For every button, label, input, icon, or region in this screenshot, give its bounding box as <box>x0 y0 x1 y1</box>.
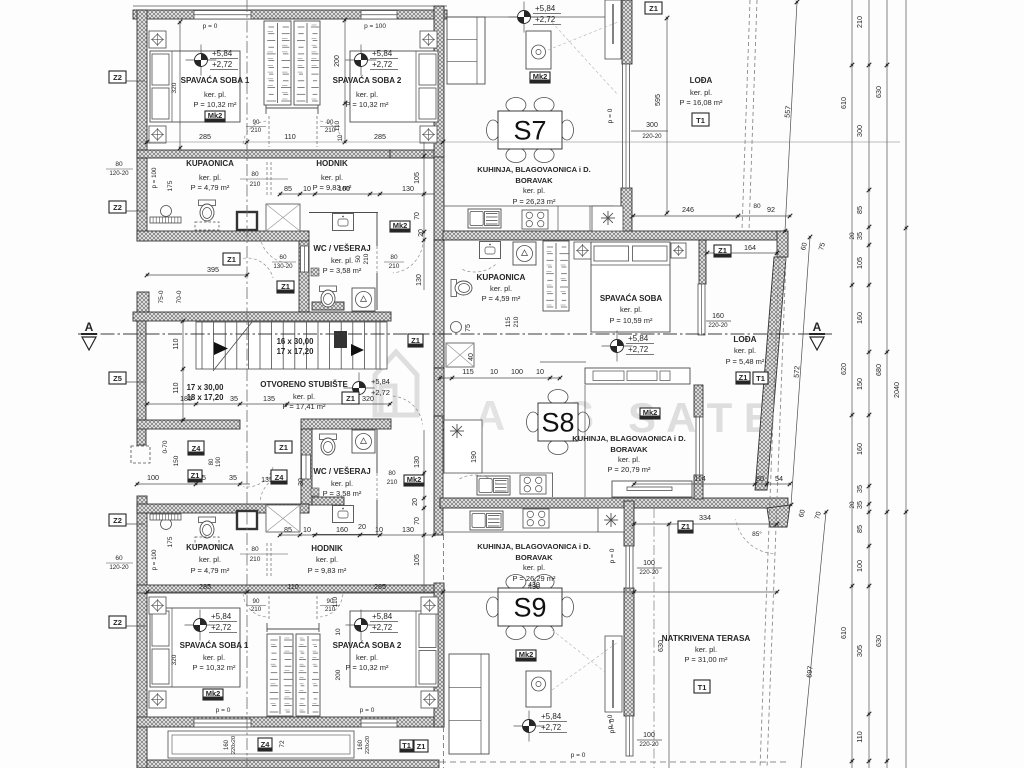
svg-text:110: 110 <box>334 120 341 131</box>
svg-text:+2,72: +2,72 <box>628 345 649 354</box>
svg-text:85: 85 <box>855 206 864 214</box>
svg-text:ker. pl.: ker. pl. <box>523 186 545 195</box>
svg-text:620: 620 <box>839 363 848 375</box>
svg-text:20: 20 <box>849 232 856 240</box>
svg-text:KUPAONICA: KUPAONICA <box>186 159 234 168</box>
svg-text:35: 35 <box>855 501 864 509</box>
svg-text:Z4: Z4 <box>192 444 202 453</box>
svg-text:Z1: Z1 <box>281 282 290 291</box>
svg-text:ker. pl.: ker. pl. <box>199 173 221 182</box>
svg-text:10: 10 <box>536 367 544 376</box>
svg-text:210: 210 <box>389 263 400 270</box>
svg-text:430: 430 <box>528 582 540 589</box>
svg-text:+2,72: +2,72 <box>371 388 390 397</box>
svg-text:572: 572 <box>792 366 802 379</box>
svg-text:p = 100: p = 100 <box>364 23 386 30</box>
svg-text:80: 80 <box>756 474 764 483</box>
svg-text:T1: T1 <box>402 741 411 750</box>
svg-text:164: 164 <box>744 243 756 252</box>
svg-text:70: 70 <box>414 517 421 525</box>
svg-text:+5,84: +5,84 <box>371 377 390 386</box>
svg-text:p = 0: p = 0 <box>609 718 616 733</box>
svg-text:130-20: 130-20 <box>273 263 293 270</box>
svg-text:Z1: Z1 <box>346 394 355 403</box>
svg-text:HODNIK: HODNIK <box>316 159 348 168</box>
svg-text:70: 70 <box>414 212 421 220</box>
svg-text:S8: S8 <box>541 408 574 438</box>
svg-text:Z1: Z1 <box>227 255 236 264</box>
svg-text:246: 246 <box>682 205 694 214</box>
svg-text:P = 10,32 m²: P = 10,32 m² <box>345 100 389 109</box>
svg-text:SPAVAĆA SOBA 1: SPAVAĆA SOBA 1 <box>181 76 250 85</box>
svg-text:+5,84: +5,84 <box>372 612 393 621</box>
svg-text:285: 285 <box>199 582 211 591</box>
svg-text:+5,84: +5,84 <box>541 712 562 721</box>
svg-text:p = 0: p = 0 <box>607 108 614 123</box>
svg-text:630: 630 <box>874 635 883 647</box>
svg-text:WC / VEŠERAJ: WC / VEŠERAJ <box>313 244 370 253</box>
svg-text:p = 0: p = 0 <box>360 707 375 714</box>
svg-text:+5,84: +5,84 <box>212 49 233 58</box>
svg-text:630: 630 <box>874 86 883 98</box>
svg-text:220x20: 220x20 <box>231 736 237 754</box>
svg-text:Z1: Z1 <box>681 522 690 531</box>
svg-text:10: 10 <box>338 134 344 141</box>
svg-text:115: 115 <box>505 316 512 327</box>
svg-text:ker. pl.: ker. pl. <box>618 455 640 464</box>
svg-text:NATKRIVENA TERASA: NATKRIVENA TERASA <box>662 634 751 643</box>
svg-text:220-20: 220-20 <box>642 133 662 140</box>
svg-text:2040: 2040 <box>892 382 901 398</box>
svg-text:P = 10,32 m²: P = 10,32 m² <box>193 100 237 109</box>
svg-text:Z1: Z1 <box>649 4 658 13</box>
svg-text:p = 100: p = 100 <box>151 167 158 188</box>
svg-text:T1: T1 <box>698 683 707 692</box>
svg-text:ker. pl.: ker. pl. <box>490 284 512 293</box>
svg-text:110: 110 <box>287 582 298 591</box>
svg-text:16 x 30,00: 16 x 30,00 <box>277 337 315 346</box>
svg-text:ker. pl.: ker. pl. <box>690 88 712 97</box>
svg-text:+5,84: +5,84 <box>211 612 232 621</box>
svg-text:10: 10 <box>303 525 311 534</box>
svg-text:ker. pl.: ker. pl. <box>734 346 756 355</box>
svg-text:175: 175 <box>167 180 174 191</box>
svg-text:ker. pl.: ker. pl. <box>203 653 225 662</box>
svg-text:LOĐA: LOĐA <box>690 76 713 85</box>
svg-text:100: 100 <box>643 732 655 739</box>
svg-text:105: 105 <box>855 257 864 269</box>
svg-text:395: 395 <box>207 265 219 274</box>
svg-text:LOĐA: LOĐA <box>733 335 756 344</box>
svg-text:SPAVAĆA SOBA 2: SPAVAĆA SOBA 2 <box>333 641 402 650</box>
svg-text:210: 210 <box>387 479 398 486</box>
svg-text:P = 17,41 m²: P = 17,41 m² <box>282 402 326 411</box>
svg-text:80: 80 <box>390 254 398 261</box>
svg-text:+2,72: +2,72 <box>372 623 393 632</box>
svg-text:ker. pl.: ker. pl. <box>331 256 353 265</box>
svg-text:+2,72: +2,72 <box>211 623 232 632</box>
svg-text:130: 130 <box>402 184 414 193</box>
svg-text:ker. pl.: ker. pl. <box>293 392 315 401</box>
svg-text:320: 320 <box>171 82 178 93</box>
svg-text:120-20: 120-20 <box>109 564 129 571</box>
svg-text:+2,72: +2,72 <box>535 15 556 24</box>
svg-text:p = 100: p = 100 <box>151 549 158 570</box>
svg-text:A: A <box>85 320 94 334</box>
svg-text:Z1: Z1 <box>718 246 727 255</box>
svg-text:130: 130 <box>414 456 421 468</box>
svg-text:100: 100 <box>643 560 655 567</box>
svg-text:210: 210 <box>363 253 370 264</box>
svg-text:210: 210 <box>251 127 262 134</box>
svg-text:35: 35 <box>230 394 238 403</box>
svg-text:160: 160 <box>855 443 864 455</box>
svg-text:KUPAONICA: KUPAONICA <box>477 273 526 282</box>
svg-text:85: 85 <box>855 525 864 533</box>
svg-text:680: 680 <box>874 364 883 376</box>
svg-text:40: 40 <box>468 353 475 361</box>
svg-text:+2,72: +2,72 <box>212 60 233 69</box>
svg-text:OTVORENO STUBIŠTE: OTVORENO STUBIŠTE <box>260 380 348 389</box>
svg-text:Z2: Z2 <box>113 203 122 212</box>
svg-text:P = 10,32 m²: P = 10,32 m² <box>345 663 389 672</box>
svg-text:75: 75 <box>465 324 472 332</box>
svg-text:220-20: 220-20 <box>639 569 659 576</box>
svg-text:190: 190 <box>471 451 478 463</box>
svg-text:70-0: 70-0 <box>176 290 183 303</box>
svg-text:Mk2: Mk2 <box>519 650 534 659</box>
svg-text:20: 20 <box>412 498 419 506</box>
svg-text:110: 110 <box>855 731 864 742</box>
svg-text:115: 115 <box>462 367 473 376</box>
svg-text:BORAVAK: BORAVAK <box>610 445 648 454</box>
svg-text:10: 10 <box>303 184 311 193</box>
svg-text:10: 10 <box>490 367 498 376</box>
svg-text:P = 10,59 m²: P = 10,59 m² <box>609 316 653 325</box>
svg-text:105: 105 <box>414 172 421 184</box>
svg-text:ker. pl.: ker. pl. <box>523 563 545 572</box>
svg-text:85: 85 <box>284 525 292 534</box>
svg-text:100: 100 <box>855 560 864 572</box>
svg-text:160: 160 <box>855 312 864 324</box>
svg-text:10: 10 <box>375 525 383 534</box>
svg-text:190: 190 <box>216 456 222 467</box>
svg-text:110: 110 <box>284 132 295 141</box>
svg-text:P = 16,08 m²: P = 16,08 m² <box>679 98 723 107</box>
svg-text:S9: S9 <box>513 593 546 623</box>
svg-text:P = 4,79 m²: P = 4,79 m² <box>191 183 230 192</box>
svg-text:Mk2: Mk2 <box>533 72 548 81</box>
svg-text:220-20: 220-20 <box>639 741 659 748</box>
svg-text:697: 697 <box>804 665 814 678</box>
svg-text:210: 210 <box>251 606 262 613</box>
svg-text:+5,84: +5,84 <box>628 334 649 343</box>
svg-text:p = 0: p = 0 <box>571 752 586 759</box>
svg-text:P = 10,32 m²: P = 10,32 m² <box>192 663 236 672</box>
svg-text:35: 35 <box>855 232 864 240</box>
svg-text:130: 130 <box>416 274 423 286</box>
svg-text:80: 80 <box>388 470 396 477</box>
svg-text:90: 90 <box>327 119 334 126</box>
svg-text:175: 175 <box>167 536 174 547</box>
svg-text:20: 20 <box>358 522 366 531</box>
svg-text:110: 110 <box>173 338 180 349</box>
svg-text:160: 160 <box>358 739 364 750</box>
svg-text:KUHINJA, BLAGOVAONICA i D.: KUHINJA, BLAGOVAONICA i D. <box>477 165 591 174</box>
svg-text:KUHINJA, BLAGOVAONICA i D.: KUHINJA, BLAGOVAONICA i D. <box>572 434 686 443</box>
svg-text:610: 610 <box>839 627 848 639</box>
svg-text:80: 80 <box>209 458 215 465</box>
svg-text:ker. pl.: ker. pl. <box>321 173 343 182</box>
svg-text:T1: T1 <box>696 116 705 125</box>
svg-text:200: 200 <box>335 669 342 680</box>
svg-text:114: 114 <box>694 474 705 483</box>
svg-text:210: 210 <box>513 316 520 327</box>
svg-text:P = 3,58 m²: P = 3,58 m² <box>323 489 362 498</box>
svg-text:+2,72: +2,72 <box>541 723 562 732</box>
svg-text:17 x 30,00: 17 x 30,00 <box>187 383 225 392</box>
svg-text:557: 557 <box>782 105 792 118</box>
svg-text:Z2: Z2 <box>113 516 122 525</box>
svg-text:KUPAONICA: KUPAONICA <box>186 543 234 552</box>
svg-text:285: 285 <box>374 132 386 141</box>
svg-text:100: 100 <box>511 367 523 376</box>
svg-text:60: 60 <box>279 254 287 261</box>
svg-text:Z1: Z1 <box>279 443 288 452</box>
svg-text:Mk2: Mk2 <box>208 111 223 120</box>
svg-text:Z2: Z2 <box>113 73 122 82</box>
svg-text:P = 31,00 m²: P = 31,00 m² <box>684 655 728 664</box>
svg-text:85°: 85° <box>752 530 762 538</box>
svg-text:35: 35 <box>855 485 864 493</box>
svg-text:20: 20 <box>418 229 425 237</box>
svg-text:P = 4,79 m²: P = 4,79 m² <box>191 566 230 575</box>
svg-text:300: 300 <box>855 125 864 137</box>
svg-text:KUHINJA, BLAGOVAONICA i D.: KUHINJA, BLAGOVAONICA i D. <box>477 542 591 551</box>
svg-text:90: 90 <box>253 598 260 605</box>
svg-text:ker. pl.: ker. pl. <box>356 653 378 662</box>
svg-text:130: 130 <box>402 525 414 534</box>
svg-text:50: 50 <box>355 255 362 263</box>
svg-text:150: 150 <box>855 378 864 390</box>
svg-text:35: 35 <box>229 473 237 482</box>
svg-text:334: 334 <box>699 513 711 522</box>
svg-text:305: 305 <box>855 645 864 657</box>
svg-text:60: 60 <box>115 555 123 562</box>
svg-text:150: 150 <box>173 455 180 466</box>
svg-text:160: 160 <box>712 313 724 320</box>
svg-text:p = 0: p = 0 <box>203 23 218 30</box>
svg-text:BORAVAK: BORAVAK <box>515 553 553 562</box>
svg-text:Mk2: Mk2 <box>643 408 658 417</box>
svg-text:210: 210 <box>855 16 864 28</box>
svg-text:120-20: 120-20 <box>109 170 129 177</box>
svg-text:54: 54 <box>775 474 783 483</box>
svg-text:ker. pl.: ker. pl. <box>199 555 221 564</box>
svg-text:595: 595 <box>653 94 662 106</box>
svg-text:S7: S7 <box>513 116 546 146</box>
svg-text:220-20: 220-20 <box>708 322 728 329</box>
svg-text:610: 610 <box>839 97 848 109</box>
svg-text:HODNIK: HODNIK <box>311 544 343 553</box>
svg-text:+5,84: +5,84 <box>535 4 556 13</box>
svg-text:110: 110 <box>173 382 180 393</box>
svg-text:Z5: Z5 <box>113 374 122 383</box>
svg-text:18 x 17,20: 18 x 17,20 <box>187 393 225 402</box>
svg-text:ker. pl.: ker. pl. <box>620 305 642 314</box>
svg-text:17 x 17,20: 17 x 17,20 <box>277 347 315 356</box>
svg-text:285: 285 <box>374 582 386 591</box>
svg-text:T1: T1 <box>756 374 765 383</box>
svg-text:Z4: Z4 <box>275 473 285 482</box>
svg-text:ker. pl.: ker. pl. <box>356 90 378 99</box>
svg-text:ker. pl.: ker. pl. <box>316 555 338 564</box>
svg-text:P = 4,59 m²: P = 4,59 m² <box>482 294 521 303</box>
svg-text:80: 80 <box>753 203 761 210</box>
svg-text:Mk2: Mk2 <box>407 475 422 484</box>
svg-text:P = 26,23 m²: P = 26,23 m² <box>512 197 556 206</box>
svg-text:+5,84: +5,84 <box>372 49 393 58</box>
svg-text:92: 92 <box>767 205 775 214</box>
svg-text:320: 320 <box>171 654 178 665</box>
svg-text:SPAVAĆA SOBA: SPAVAĆA SOBA <box>600 294 663 303</box>
svg-text:210: 210 <box>250 556 261 563</box>
svg-text:80: 80 <box>251 546 259 553</box>
svg-text:80: 80 <box>115 161 123 168</box>
svg-text:135: 135 <box>263 394 275 403</box>
svg-text:Z4: Z4 <box>261 740 271 749</box>
svg-text:10: 10 <box>335 628 342 636</box>
svg-text:P = 9,83 m²: P = 9,83 m² <box>313 183 352 192</box>
svg-text:100: 100 <box>147 473 159 482</box>
svg-text:85: 85 <box>284 184 292 193</box>
svg-text:+2,72: +2,72 <box>372 60 393 69</box>
svg-text:A: A <box>813 320 822 334</box>
svg-text:BORAVAK: BORAVAK <box>515 176 553 185</box>
svg-text:P = 9,83 m²: P = 9,83 m² <box>308 566 347 575</box>
svg-text:160: 160 <box>336 525 348 534</box>
svg-text:Z1: Z1 <box>417 742 426 751</box>
svg-text:105: 105 <box>414 554 421 566</box>
svg-text:SPAVAĆA SOBA 1: SPAVAĆA SOBA 1 <box>180 641 249 650</box>
svg-text:WC / VEŠERAJ: WC / VEŠERAJ <box>313 467 370 476</box>
svg-text:p = 0: p = 0 <box>216 707 231 714</box>
svg-text:72: 72 <box>279 740 286 748</box>
svg-text:Z1: Z1 <box>739 373 748 382</box>
svg-text:Mk2: Mk2 <box>393 221 408 230</box>
svg-text:P = 3,58 m²: P = 3,58 m² <box>323 266 362 275</box>
svg-text:Z2: Z2 <box>113 618 122 627</box>
svg-text:ker. pl.: ker. pl. <box>695 645 717 654</box>
svg-text:300: 300 <box>646 122 658 129</box>
svg-text:P = 20,79 m²: P = 20,79 m² <box>607 465 651 474</box>
svg-text:p = 0: p = 0 <box>609 548 616 563</box>
svg-text:110: 110 <box>332 596 339 607</box>
svg-text:ker. pl.: ker. pl. <box>204 90 226 99</box>
svg-text:P = 5,48 m²: P = 5,48 m² <box>726 357 765 366</box>
svg-text:160: 160 <box>224 739 230 750</box>
svg-text:210: 210 <box>250 181 261 188</box>
svg-text:75-0: 75-0 <box>158 290 165 303</box>
svg-text:90: 90 <box>253 119 260 126</box>
svg-text:220x20: 220x20 <box>365 736 371 754</box>
svg-text:Mk2: Mk2 <box>206 689 221 698</box>
svg-text:ker. pl.: ker. pl. <box>331 479 353 488</box>
svg-text:Z1: Z1 <box>411 336 420 345</box>
svg-text:30: 30 <box>298 478 305 486</box>
svg-text:0-70: 0-70 <box>162 440 169 453</box>
svg-text:285: 285 <box>199 132 211 141</box>
svg-text:Z1: Z1 <box>191 471 200 480</box>
svg-text:SPAVAĆA SOBA 2: SPAVAĆA SOBA 2 <box>333 76 402 85</box>
svg-text:200: 200 <box>334 55 341 67</box>
svg-text:80: 80 <box>251 171 259 178</box>
